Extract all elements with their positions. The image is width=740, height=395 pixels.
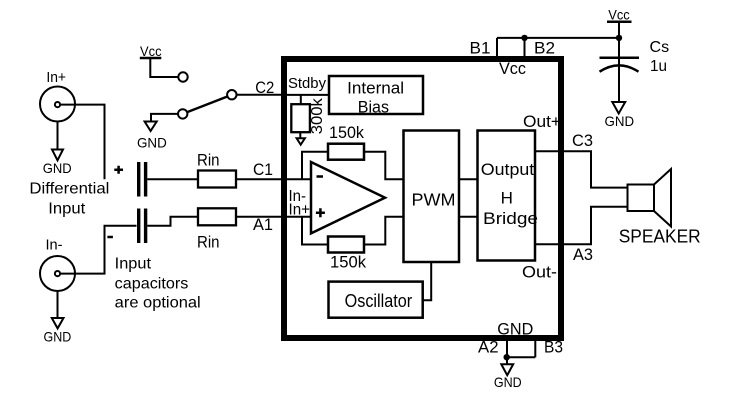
capacitor Cs — [600, 56, 640, 59]
svg-text:Vcc: Vcc — [499, 60, 526, 78]
svg-text:Output: Output — [481, 160, 535, 179]
wire capacitor to Rin — [147, 178, 198, 180]
capacitor Cs wire — [618, 38, 620, 102]
wire PWM to oscillator — [423, 262, 432, 300]
resistor 150k (top) — [328, 144, 364, 160]
svg-text:C2: C2 — [255, 78, 274, 97]
svg-text:Input: Input — [115, 256, 152, 273]
svg-text:C3: C3 — [572, 131, 593, 150]
svg-text:C1: C1 — [253, 160, 273, 179]
ground (A2/B3) — [506, 357, 508, 364]
svg-text:Rin: Rin — [197, 152, 220, 170]
svg-text:150k: 150k — [330, 254, 367, 272]
svg-text:Oscillator: Oscillator — [345, 291, 413, 311]
resistor Rin (top) — [198, 171, 236, 188]
svg-text:Vcc: Vcc — [140, 44, 162, 59]
wire Vcc rail — [497, 22, 619, 56]
ground (In-) — [57, 291, 59, 318]
svg-text:SPEAKER: SPEAKER — [619, 227, 701, 247]
wire Out+ to speaker — [535, 151, 628, 187]
wire In- to capacitor — [61, 226, 137, 274]
svg-text:are optional: are optional — [115, 294, 201, 311]
block Oscillator — [329, 282, 423, 318]
svg-text:Out+: Out+ — [523, 113, 561, 131]
wire In+ to capacitor — [61, 105, 105, 180]
svg-text:GND: GND — [497, 320, 533, 338]
wire pin A2 to ground — [507, 341, 535, 357]
svg-text:300k: 300k — [309, 97, 326, 134]
svg-text:Cs: Cs — [650, 39, 670, 56]
wire PWM to H bridge (bottom) — [459, 216, 478, 218]
resistor 150k (bottom) — [328, 237, 364, 253]
svg-text:B3: B3 — [544, 338, 563, 357]
resistor 300k stub — [300, 95, 302, 104]
wire pin A1 to op-amp — [287, 216, 311, 218]
svg-text:A2: A2 — [478, 338, 499, 357]
ground (In+) — [57, 122, 59, 150]
connector In- (BNC) — [40, 256, 75, 291]
op-amp inverting input mark — [317, 175, 324, 178]
svg-text:GND: GND — [43, 160, 72, 176]
svg-text:Bias: Bias — [358, 99, 389, 117]
switch S1 contact (GND side) — [178, 109, 187, 118]
wire Rin to pin A1 — [236, 216, 284, 218]
svg-text:1u: 1u — [650, 58, 667, 75]
IC U1 boundary box — [284, 59, 561, 338]
capacitor Cin+ — [139, 162, 146, 197]
junction Cs — [616, 35, 622, 41]
switch S1 blade — [187, 97, 227, 113]
svg-text:GND: GND — [494, 374, 522, 390]
plus polarity label — [114, 166, 123, 174]
svg-text:B2: B2 — [534, 39, 555, 58]
op-amp U2 — [311, 162, 385, 233]
svg-text:A1: A1 — [253, 215, 273, 234]
ground (300k) — [299, 132, 301, 138]
junction A2 — [504, 354, 510, 360]
svg-text:Rin: Rin — [197, 233, 220, 251]
ground (switch) — [145, 122, 157, 132]
op-amp non-inverting input mark — [316, 208, 325, 217]
resistor 300k — [291, 104, 310, 132]
speaker LS1 — [628, 185, 655, 212]
wire capacitor to Rin bottom — [147, 217, 198, 226]
capacitor Cin- — [139, 209, 146, 244]
wire Vcc to switch contact — [150, 58, 178, 77]
wire pin C1 to op-amp — [287, 178, 311, 180]
junction B2 — [521, 35, 527, 41]
wire switch to ground — [151, 114, 178, 122]
wire switch pole to pin C2 — [237, 94, 285, 96]
svg-text:Out-: Out- — [522, 264, 557, 282]
svg-text:Internal: Internal — [347, 80, 404, 98]
resistor Rin (bottom) — [198, 208, 236, 225]
svg-text:GND: GND — [605, 113, 635, 129]
connector In+ (BNC) — [40, 87, 75, 122]
ground (Cs) — [612, 102, 625, 114]
svg-text:A3: A3 — [573, 245, 593, 264]
block PWM — [404, 131, 460, 263]
svg-text:GND: GND — [44, 329, 72, 345]
svg-text:In-: In- — [46, 238, 63, 254]
switch S1 pole contact — [227, 90, 236, 99]
svg-text:In+: In+ — [46, 70, 66, 86]
wire feedback bottom — [302, 217, 328, 245]
svg-text:Differential: Differential — [29, 181, 109, 198]
svg-text:In+: In+ — [289, 202, 311, 219]
block Internal Bias — [329, 76, 423, 114]
block Output H Bridge — [478, 131, 536, 261]
svg-text:Input: Input — [48, 201, 86, 218]
wire Rin to pin C1 — [236, 178, 284, 180]
wire feedback bottom to PWM — [364, 217, 404, 245]
svg-text:150k: 150k — [329, 124, 365, 142]
minus polarity label — [107, 236, 113, 239]
wire PWM to H bridge (top) — [459, 178, 478, 180]
wire Out- to speaker — [535, 207, 628, 245]
svg-text:GND: GND — [137, 135, 167, 151]
svg-text:B1: B1 — [470, 39, 491, 58]
wire feedback top — [302, 152, 328, 180]
svg-text:Vcc: Vcc — [608, 8, 630, 23]
svg-text:PWM: PWM — [412, 190, 456, 210]
wire Stdby to Internal Bias — [287, 94, 329, 96]
svg-text:H: H — [501, 189, 513, 208]
svg-text:Stdby: Stdby — [288, 75, 326, 92]
wire feedback top to PWM — [364, 152, 404, 180]
switch S1 contact (Vcc side) — [178, 72, 187, 81]
svg-text:Bridge: Bridge — [483, 209, 538, 228]
svg-text:capacitors: capacitors — [115, 276, 189, 293]
